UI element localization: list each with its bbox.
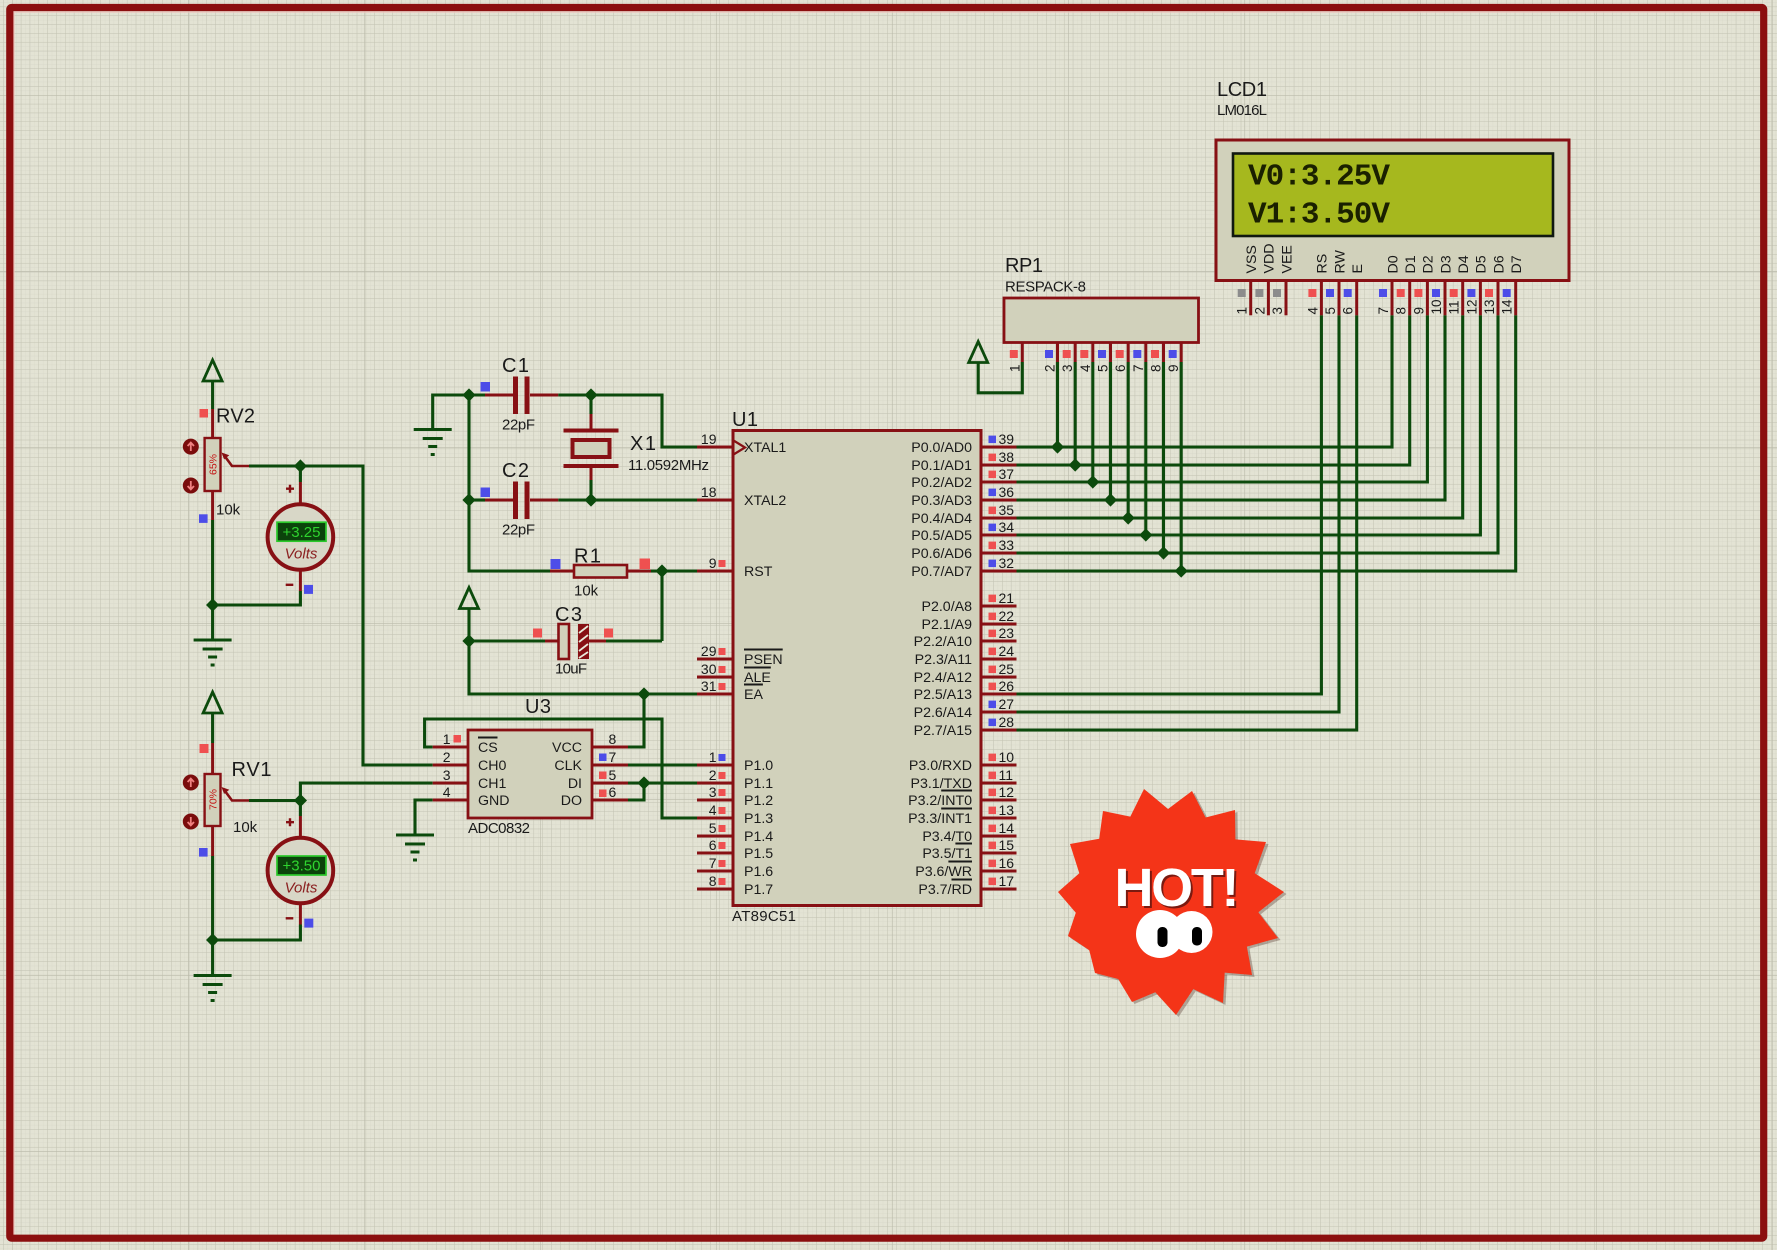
svg-text:RV2: RV2	[216, 406, 255, 428]
logic square RV2 pin1	[200, 409, 209, 418]
svg-text:RESPACK-8: RESPACK-8	[1005, 279, 1086, 296]
svg-text:8: 8	[1149, 364, 1164, 372]
wire U3 GND to ground	[415, 800, 433, 835]
wire RP1 pin6 to P0.4	[1127, 362, 1130, 518]
svg-text:8: 8	[1394, 307, 1409, 315]
U1 pin 39 logic square	[989, 436, 997, 444]
RV2 adjust buttons	[183, 439, 199, 494]
junction C1-left / ground bus	[462, 388, 475, 401]
svg-text:P3.7/RD: P3.7/RD	[918, 882, 972, 898]
wire P0.6 to LCD D6	[1017, 315, 1499, 553]
LCD display LCD1 LM016L	[1216, 140, 1569, 315]
wire ground to C1 left	[433, 395, 485, 430]
svg-text:31: 31	[701, 678, 717, 694]
wire to C3 left	[469, 639, 545, 642]
wire VCC to U3	[628, 694, 644, 747]
svg-text:P0.1/AD1: P0.1/AD1	[911, 458, 972, 474]
svg-text:CH0: CH0	[478, 758, 506, 774]
ground (RV2)	[194, 640, 232, 665]
svg-text:10: 10	[1429, 299, 1444, 314]
LCD pin 14 logic square	[1503, 289, 1511, 297]
svg-text:5: 5	[1323, 307, 1338, 315]
junction EA / U3 VCC	[637, 687, 650, 700]
junction P0.2 / RP1 pin4	[1086, 475, 1099, 488]
U1 pin 2 logic square	[719, 772, 726, 779]
U1 pin 21 logic square	[989, 595, 997, 603]
wire RP1 pin4 to P0.2	[1091, 362, 1094, 482]
wire P2.6 to LCD RW	[1017, 315, 1340, 712]
svg-text:D5: D5	[1474, 255, 1490, 273]
U1 pin 6 logic square	[719, 842, 726, 849]
junction P0.4 / RP1 pin6	[1122, 511, 1135, 524]
logic square R1 left	[551, 559, 561, 569]
svg-text:D4: D4	[1456, 255, 1472, 273]
svg-text:E: E	[1350, 264, 1366, 273]
svg-text:D2: D2	[1421, 255, 1437, 273]
U1 pin 24 logic square	[989, 648, 997, 656]
U1 pin 29 logic square	[719, 648, 726, 655]
svg-text:1: 1	[1235, 307, 1250, 315]
HOT! sticker badge	[1061, 791, 1287, 1017]
svg-text:7: 7	[709, 855, 717, 871]
svg-text:P0.5/AD5: P0.5/AD5	[911, 528, 972, 544]
svg-text:EA: EA	[744, 687, 763, 703]
svg-text:11: 11	[1447, 300, 1462, 314]
U1 pin 5 logic square	[719, 825, 726, 832]
svg-text:32: 32	[999, 555, 1015, 571]
svg-text:RP1: RP1	[1005, 255, 1043, 277]
junction RV2 wiper / voltmeter1 plus	[294, 459, 307, 472]
svg-text:7: 7	[609, 749, 617, 765]
U1 pin 10 logic square	[989, 754, 997, 762]
U1 pin 15 logic square	[989, 842, 997, 850]
junction P0.7 / RP1 pin9	[1175, 564, 1188, 577]
U1 pin 17 logic square	[989, 878, 997, 886]
capacitor C2 22pF	[485, 482, 558, 520]
svg-text:7: 7	[1131, 364, 1146, 372]
svg-text:13: 13	[999, 802, 1015, 818]
U1 pin 28 logic square	[989, 719, 997, 727]
U1 pin 27 logic square	[989, 701, 997, 709]
U1 pin 22 logic square	[989, 613, 997, 621]
RP1 pin 5 logic square	[1098, 350, 1106, 358]
svg-text:23: 23	[999, 625, 1015, 641]
wire to voltmeter2 plus	[299, 801, 302, 817]
svg-text:VCC: VCC	[552, 740, 582, 756]
junction P0.1 / RP1 pin3	[1069, 458, 1082, 471]
svg-text:V0:3.25V: V0:3.25V	[1248, 160, 1390, 195]
svg-text:10uF: 10uF	[555, 661, 587, 678]
wire RV1 wiper	[249, 799, 300, 802]
U1 pin 7 logic square	[719, 860, 726, 867]
svg-text:P2.7/A15: P2.7/A15	[914, 723, 972, 739]
svg-text:D6: D6	[1491, 255, 1507, 273]
LCD pin 5 logic square	[1326, 289, 1334, 297]
wire P0.7 to LCD D7	[1017, 315, 1516, 571]
junction VCC / C3 left	[462, 634, 475, 647]
svg-text:P2.4/A12: P2.4/A12	[914, 670, 972, 686]
svg-text:P3.5/T1: P3.5/T1	[922, 846, 972, 862]
svg-text:P3.3/INT1: P3.3/INT1	[908, 811, 972, 827]
svg-text:3: 3	[1270, 307, 1285, 315]
svg-text:P2.2/A10: P2.2/A10	[914, 634, 972, 650]
svg-text:10k: 10k	[233, 819, 258, 836]
LCD pin 10 logic square	[1432, 289, 1440, 297]
wire voltmeter2 minus to RV1 bottom	[213, 925, 301, 941]
svg-text:LCD1: LCD1	[1217, 79, 1267, 101]
svg-text:15: 15	[999, 837, 1015, 853]
svg-text:37: 37	[999, 466, 1015, 482]
logic square C3 right	[604, 629, 613, 638]
junction RV1-bottom / voltmeter2 minus	[206, 933, 219, 946]
U1 pin 9 logic square	[719, 560, 726, 567]
U1 pin 12 logic square	[989, 789, 997, 797]
svg-text:39: 39	[999, 431, 1015, 447]
svg-text:6: 6	[1341, 307, 1356, 315]
svg-text:9: 9	[1166, 364, 1181, 372]
LCD pin 11 logic square	[1450, 289, 1458, 297]
wire to C2 left	[469, 498, 485, 501]
wire P2.7 to LCD E	[1017, 315, 1357, 730]
svg-text:3: 3	[443, 767, 451, 783]
svg-text:RS: RS	[1315, 254, 1331, 274]
wire C1 to XTAL1	[558, 395, 697, 447]
junction C2 / crystal bottom	[584, 493, 597, 506]
MCU U1 AT89C51	[697, 431, 1017, 906]
junction P0.5 / RP1 pin7	[1139, 528, 1152, 541]
svg-text:VSS: VSS	[1244, 245, 1260, 273]
svg-text:26: 26	[999, 678, 1015, 694]
wire P0.3 to LCD D3	[1017, 315, 1446, 500]
wire RP1 pin7 to P0.5	[1144, 362, 1147, 535]
junction C2-left	[462, 493, 475, 506]
svg-text:6: 6	[709, 837, 717, 853]
svg-text:P2.0/A8: P2.0/A8	[922, 599, 973, 615]
wire RP1 pin3 to P0.1	[1074, 362, 1077, 465]
svg-text:P1.0: P1.0	[744, 758, 773, 774]
badge eyes	[1136, 910, 1213, 958]
U3 CS overline	[478, 737, 498, 739]
svg-text:VEE: VEE	[1279, 245, 1295, 273]
junction P0.6 / RP1 pin8	[1157, 546, 1170, 559]
wire RV2 wiper to U3 CH0	[249, 466, 433, 765]
svg-text:11.0592MHz: 11.0592MHz	[628, 457, 709, 474]
svg-text:1: 1	[709, 749, 717, 765]
LCD pin 3 logic square	[1273, 289, 1281, 297]
svg-text:36: 36	[999, 484, 1015, 500]
capacitor C1 22pF	[485, 377, 558, 415]
svg-text:70%: 70%	[208, 789, 220, 810]
logic square RV2 pin3	[199, 514, 208, 523]
wire crystal top link	[589, 395, 592, 414]
junction P0.0 / RP1 pin2	[1051, 440, 1064, 453]
svg-text:38: 38	[999, 449, 1015, 465]
svg-text:5: 5	[609, 767, 617, 783]
svg-text:9: 9	[1411, 307, 1426, 315]
capacitor C3 10uF (electrolytic)	[545, 624, 606, 659]
svg-text:19: 19	[701, 431, 717, 447]
svg-text:5: 5	[709, 820, 717, 836]
LCD pin 2 logic square	[1255, 289, 1263, 297]
svg-text:P0.7/AD7: P0.7/AD7	[911, 564, 972, 580]
svg-text:18: 18	[701, 484, 717, 500]
logic square C1	[481, 382, 491, 392]
U1 pin 14 logic square	[989, 825, 997, 833]
svg-text:P2.1/A9: P2.1/A9	[922, 617, 973, 633]
svg-text:U3: U3	[525, 696, 551, 718]
RP1 pin 1 logic square	[1010, 350, 1018, 358]
U3 pin 7 logic square	[599, 754, 607, 762]
wire U3 DO to DI node	[628, 783, 644, 800]
U1 pin 33 logic square	[989, 542, 997, 550]
RP1 pin 2 logic square	[1045, 350, 1053, 358]
svg-text:R1: R1	[574, 546, 601, 568]
logic square RV1 pin1	[200, 744, 209, 753]
svg-text:P1.6: P1.6	[744, 864, 773, 880]
svg-text:PSEN: PSEN	[744, 652, 783, 668]
U1 pin 31 logic square	[719, 683, 726, 690]
wire RP1 pin9 to P0.7	[1180, 362, 1183, 571]
wire RV1 wiper to U3 CH1	[300, 783, 432, 801]
svg-text:2: 2	[443, 749, 451, 765]
logic square C2	[481, 488, 491, 498]
wire C2 to XTAL2	[558, 498, 697, 501]
svg-text:12: 12	[1464, 299, 1479, 314]
logic square C3 left	[533, 629, 542, 638]
svg-text:6: 6	[609, 784, 617, 800]
LCD pin 7 logic square	[1379, 289, 1387, 297]
RP1 pin 6 logic square	[1116, 350, 1124, 358]
svg-text:2: 2	[709, 767, 717, 783]
svg-text:P2.6/A14: P2.6/A14	[914, 705, 972, 721]
svg-text:28: 28	[999, 714, 1015, 730]
svg-text:22: 22	[999, 608, 1015, 624]
ground (U3)	[396, 835, 434, 860]
svg-text:C3: C3	[555, 604, 582, 626]
LCD pin 8 logic square	[1397, 289, 1405, 297]
voltmeter VM1 (+3.25 Volts)	[268, 482, 334, 591]
potentiometer RV1	[205, 743, 249, 856]
power terminal VCC (RV1 top)	[203, 692, 222, 713]
wire P0.2 to LCD D2	[1017, 315, 1428, 482]
LCD pin 13 logic square	[1485, 289, 1493, 297]
svg-text:4: 4	[443, 784, 451, 800]
junction DI / DO	[637, 776, 650, 789]
svg-text:AT89C51: AT89C51	[732, 908, 796, 925]
U1 pin 32 logic square	[989, 560, 997, 568]
svg-text:P0.2/AD2: P0.2/AD2	[911, 475, 972, 491]
svg-text:25: 25	[999, 661, 1015, 677]
U1 pin 38 logic square	[989, 454, 997, 462]
wire RP1 pin5 to P0.3	[1109, 362, 1112, 500]
svg-text:1: 1	[443, 731, 451, 747]
svg-text:DI: DI	[568, 776, 582, 792]
svg-text:U1: U1	[732, 409, 758, 431]
LCD screen	[1233, 154, 1553, 237]
svg-text:21: 21	[999, 590, 1015, 606]
RV1 adjust buttons	[183, 775, 199, 830]
svg-text:GND: GND	[478, 793, 510, 809]
svg-text:24: 24	[999, 643, 1015, 659]
svg-text:22pF: 22pF	[502, 417, 535, 434]
svg-text:RST: RST	[744, 564, 773, 580]
wire RV1 bottom to ground	[211, 856, 214, 976]
crystal X1 11.0592MHz	[564, 414, 619, 480]
svg-text:27: 27	[999, 696, 1015, 712]
svg-text:4: 4	[1305, 307, 1320, 315]
svg-text:P1.1: P1.1	[744, 776, 773, 792]
RP1 pin 9 logic square	[1169, 350, 1177, 358]
U1 pin 25 logic square	[989, 666, 997, 674]
junction RV2-bottom / voltmeter1 minus	[206, 598, 219, 611]
svg-text:P3.0/RXD: P3.0/RXD	[909, 758, 972, 774]
RP1 pin 4 logic square	[1080, 350, 1088, 358]
wire RV2 top to power arrow	[211, 381, 214, 409]
wire to voltmeter1 plus	[299, 466, 302, 482]
logic square VM2 minus	[304, 919, 313, 928]
svg-text:10k: 10k	[574, 583, 599, 600]
svg-text:8: 8	[609, 731, 617, 747]
svg-text:14: 14	[999, 820, 1015, 836]
U1 pin 8 logic square	[719, 878, 726, 885]
svg-text:P2.5/A13: P2.5/A13	[914, 687, 972, 703]
svg-text:3: 3	[1060, 364, 1075, 372]
svg-text:17: 17	[999, 873, 1015, 889]
LCD pin 6 logic square	[1344, 289, 1352, 297]
svg-text:P3.2/INT0: P3.2/INT0	[908, 793, 972, 809]
wire P2.5 to LCD RS	[1017, 315, 1322, 694]
LCD pin 12 logic square	[1467, 289, 1475, 297]
U1 pin 11 logic square	[989, 772, 997, 780]
wire P0.5 to LCD D5	[1017, 315, 1481, 535]
svg-text:8: 8	[709, 873, 717, 889]
svg-text:65%: 65%	[208, 454, 220, 475]
svg-text:C1: C1	[502, 355, 529, 377]
svg-text:P1.7: P1.7	[744, 882, 773, 898]
svg-text:P1.2: P1.2	[744, 793, 773, 809]
svg-text:2: 2	[1252, 307, 1267, 315]
svg-text:29: 29	[701, 643, 717, 659]
svg-text:ADC0832: ADC0832	[468, 820, 530, 837]
logic square VM1 minus	[304, 585, 313, 594]
U3 pin 5 logic square	[599, 772, 607, 780]
ADC U3 ADC0832	[433, 730, 628, 818]
svg-text:35: 35	[999, 502, 1015, 518]
U1 pin 26 logic square	[989, 683, 997, 691]
svg-text:4: 4	[709, 802, 717, 818]
logic square R1 right	[640, 559, 651, 570]
svg-text:6: 6	[1113, 364, 1128, 372]
power terminal VCC (RV2 top)	[203, 360, 222, 381]
wire U3 DI to P1.1	[628, 781, 697, 784]
svg-text:10k: 10k	[216, 502, 241, 519]
wire U3 CLK to P1.0	[628, 763, 697, 766]
LCD pin 1 logic square	[1238, 289, 1246, 297]
wire RP1 pin8 to P0.6	[1162, 362, 1165, 553]
svg-text:P0.3/AD3: P0.3/AD3	[911, 493, 972, 509]
svg-text:D3: D3	[1438, 255, 1454, 273]
svg-text:CH1: CH1	[478, 776, 506, 792]
svg-text:9: 9	[709, 555, 717, 571]
power terminal VCC (RP1)	[969, 342, 988, 363]
svg-text:HOT!: HOT!	[1115, 858, 1240, 918]
svg-text:Volts: Volts	[285, 546, 318, 563]
svg-text:CLK: CLK	[554, 758, 582, 774]
wire RV1 top to power arrow	[211, 713, 214, 743]
U1 pin 37 logic square	[989, 471, 997, 479]
U3 pin 1 logic square	[454, 735, 462, 743]
svg-text:12: 12	[999, 784, 1015, 800]
wire crystal bottom link	[589, 480, 592, 500]
wire VCC bus to EA	[469, 609, 697, 695]
RP1 pin 3 logic square	[1063, 350, 1071, 358]
svg-text:22pF: 22pF	[502, 522, 535, 539]
svg-text:D7: D7	[1509, 255, 1525, 273]
wire U3 CS to P1.3	[425, 719, 697, 818]
ground (C1)	[414, 430, 452, 455]
svg-text:3: 3	[709, 784, 717, 800]
svg-text:RV1: RV1	[232, 759, 272, 781]
RP1 pin 8 logic square	[1151, 350, 1159, 358]
resistor pack RP1 RESPACK-8	[1004, 298, 1199, 362]
wire ground bus down to R1	[469, 395, 550, 571]
svg-text:14: 14	[1500, 299, 1515, 315]
svg-text:+3.50: +3.50	[283, 858, 321, 875]
wire RP1 pin1 to VCC arrow	[978, 362, 1022, 393]
svg-text:11: 11	[999, 767, 1014, 783]
svg-text:2: 2	[1043, 364, 1058, 372]
svg-text:Volts: Volts	[285, 880, 318, 897]
svg-text:10: 10	[999, 749, 1015, 765]
svg-text:13: 13	[1482, 299, 1497, 314]
svg-text:C2: C2	[502, 460, 529, 482]
U1 pin 35 logic square	[989, 507, 997, 514]
U1 pin 13 logic square	[989, 807, 997, 815]
potentiometer RV2	[205, 409, 249, 520]
junction RST / C3	[655, 564, 668, 577]
wire voltmeter1 minus to RV2 bottom	[213, 591, 301, 605]
svg-text:VDD: VDD	[1262, 244, 1278, 274]
svg-text:5: 5	[1096, 364, 1111, 372]
LCD pin 4 logic square	[1308, 289, 1316, 297]
wire RV2 bottom to ground	[211, 520, 214, 640]
wire R1 to RST	[651, 569, 697, 572]
U1 pin 1 logic square	[719, 754, 726, 761]
svg-text:XTAL1: XTAL1	[744, 440, 786, 456]
wire P0.4 to LCD D4	[1017, 315, 1463, 518]
U3 pin 6 logic square	[599, 790, 607, 798]
wire P0.1 to LCD D1	[1017, 315, 1410, 465]
svg-text:RW: RW	[1332, 250, 1348, 274]
svg-text:P2.3/A11: P2.3/A11	[915, 652, 972, 668]
svg-text:33: 33	[999, 537, 1015, 553]
RP1 pin 7 logic square	[1133, 350, 1141, 358]
svg-text:P1.4: P1.4	[744, 829, 773, 845]
svg-text:DO: DO	[561, 793, 582, 809]
svg-text:30: 30	[701, 661, 717, 677]
svg-text:V1:3.50V: V1:3.50V	[1248, 198, 1390, 233]
wire P0.0 to LCD D0	[1017, 315, 1393, 447]
svg-text:D0: D0	[1385, 255, 1401, 273]
svg-text:P0.0/AD0: P0.0/AD0	[911, 440, 972, 456]
svg-text:X1: X1	[630, 433, 656, 455]
svg-text:P1.3: P1.3	[744, 811, 773, 827]
U1 pin 34 logic square	[989, 524, 997, 532]
wire RST down to C3	[660, 571, 663, 641]
wire RP1 pin2 to P0.0	[1056, 362, 1059, 447]
ground (RV1)	[194, 976, 232, 1001]
resistor R1 10k	[550, 565, 651, 578]
